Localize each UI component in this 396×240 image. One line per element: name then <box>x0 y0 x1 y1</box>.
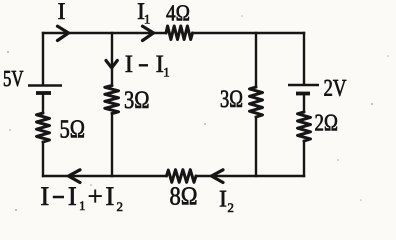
arrow current I (top wire, rightward) <box>58 26 69 40</box>
scan speckles <box>7 15 389 211</box>
wire left branch lower (R5 to bottom wire) <box>42 142 44 176</box>
label 4 ohm (R1 value) <box>166 5 175 20</box>
arrow bottom-left current I-I1+I2 (leftward) <box>69 170 81 183</box>
wire mid-right branch upper (junction to R4) <box>255 33 257 87</box>
resistor R3 3ohm (middle branch) <box>105 86 119 114</box>
battery B1 5V long plate <box>28 84 62 87</box>
wire top-left segment (node A to R1) <box>43 32 166 34</box>
label 5V (B1 value) <box>4 71 11 86</box>
wire right branch lower (R6 to bottom wire) <box>303 141 305 176</box>
label 5 ohm (R5 value) <box>61 120 69 137</box>
label I2 <box>220 191 226 207</box>
label 3 ohm (R4 value) <box>221 90 229 107</box>
wire middle branch upper (junction to R3) <box>111 33 113 86</box>
wire top-right segment (R1 to node B) <box>193 32 305 34</box>
resistor R4 3ohm (mid-right branch) <box>250 87 263 117</box>
battery B2 2V short plate <box>296 92 310 96</box>
label 2 ohm (R6 value) <box>315 115 323 131</box>
battery B2 2V long plate <box>288 84 319 87</box>
wire middle branch lower (R3 to bottom wire) <box>111 114 113 177</box>
wire right branch upper (node B to battery B2) <box>303 33 305 84</box>
label I <box>58 3 64 19</box>
wire right branch mid (battery B2 to R6) <box>303 95 305 113</box>
wire mid-right branch lower (R4 to bottom wire) <box>255 117 257 176</box>
wire bottom-right segment <box>196 175 304 177</box>
battery B1 5V short plate <box>36 91 51 95</box>
resistor R1 4ohm (top) <box>166 26 193 40</box>
resistor R2 8ohm (bottom) <box>167 170 197 183</box>
label I - I1 (middle branch current) <box>126 56 133 72</box>
label 8 ohm (R2 value) <box>170 187 180 205</box>
arrow current I1 (top wire, rightward) <box>143 26 154 40</box>
arrow current I2 (bottom wire, leftward) <box>212 170 224 183</box>
arrow current I-I1 (middle branch, downward) <box>106 61 117 68</box>
label I1 <box>138 3 144 19</box>
wire left branch mid (battery B1 to R5) <box>42 94 44 113</box>
resistor R5 5ohm (left branch) <box>37 113 50 142</box>
wire bottom-left segment <box>43 175 167 177</box>
wire left branch upper (node A to battery B1) <box>42 33 44 85</box>
label 2V (B2 value) <box>324 80 332 96</box>
label 3 ohm (R3 value) <box>125 91 133 108</box>
label I - I1 + I2 (bottom-left current) <box>41 187 48 205</box>
resistor R6 2ohm (right branch) <box>298 112 311 141</box>
